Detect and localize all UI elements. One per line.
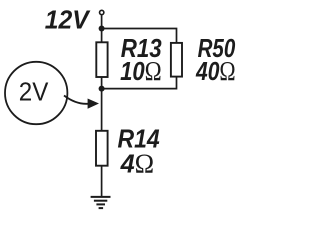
wire R14 bottom to ground [101,166,103,197]
svg-text:Ω: Ω [135,148,154,178]
svg-text:2V: 2V [19,78,49,107]
value 10Ω [120,58,162,87]
wire top horizontal to R50 branch [102,29,177,44]
terminal (open circle) at top [100,10,104,14]
resistor R50 body [171,43,182,77]
arrowhead [88,99,99,109]
label 2V [19,78,49,107]
svg-text:10: 10 [120,58,145,87]
wire R13 bottom to R14 top [101,77,103,131]
svg-text:12V: 12V [45,6,91,35]
label R13 [121,34,162,63]
node junction dot (top) [99,26,105,32]
resistor R14 body [96,131,108,166]
arrow curve from 2V circle to node [64,96,89,104]
resistor R13 body [96,42,107,77]
ground [91,197,111,208]
svg-text:Ω: Ω [219,57,235,87]
svg-text:40: 40 [195,58,219,87]
svg-text:4: 4 [120,150,135,178]
value 4Ω [120,148,155,178]
label 12V [45,6,91,35]
wire R50 bottom to bottom junction [102,77,177,89]
label R50 [198,34,236,63]
value 40Ω [195,57,236,87]
wire terminal to R13 top [101,15,103,42]
voltage source circle 2V [5,62,67,124]
label R14 [118,125,161,154]
node junction dot (bottom) [99,86,105,92]
svg-text:Ω: Ω [145,58,162,87]
